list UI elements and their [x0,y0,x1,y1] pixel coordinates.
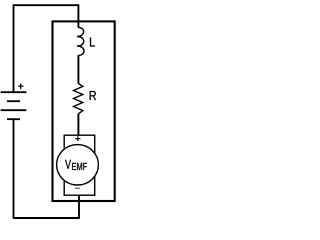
wire: top rail [13,4,79,6]
battery plus mark [18,84,24,90]
wire: resistor to EMF source box [77,114,79,136]
label V_EMF [65,160,71,169]
model boundary box [53,21,115,201]
wire: right vertical into box (to inductor) [77,4,79,27]
label R [90,91,97,100]
wire: bottom rail to battery bottom [13,119,15,219]
plus terminal mark [75,136,80,141]
wire: EMF source to bottom rail [78,195,80,218]
source V_EMF (circle) [57,145,99,185]
battery (two cells) [1,91,27,93]
resistor R (zigzag) [74,84,83,114]
minus terminal mark [75,188,80,189]
wire: bottom rail [14,217,80,219]
label L [90,38,95,47]
EMF source outline box [64,135,95,195]
wire: inductor to resistor [77,55,79,83]
inductor L (coil) [77,27,84,55]
wire: left vertical (battery top to top rail) [13,5,15,92]
